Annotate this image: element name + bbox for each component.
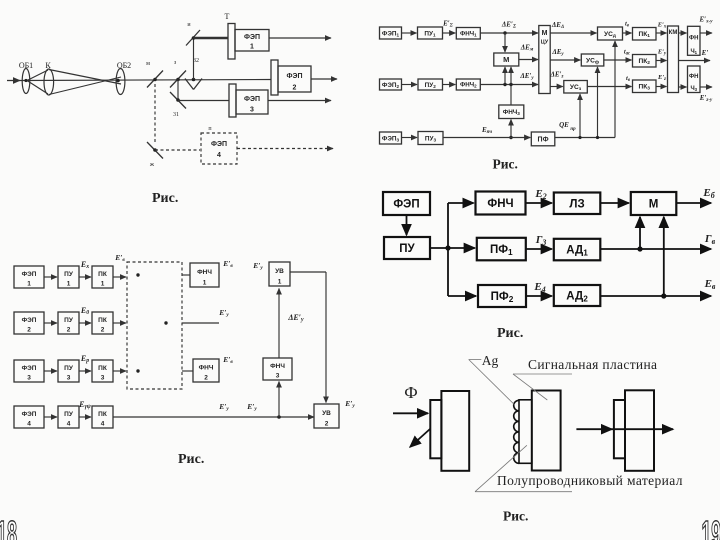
svg-text:Ч1: Ч1 xyxy=(690,49,697,55)
svg-text:ПК: ПК xyxy=(98,317,107,324)
svg-text:ж: ж xyxy=(149,162,155,168)
svg-text:3: 3 xyxy=(67,375,71,382)
svg-text:ФЭП: ФЭП xyxy=(22,411,37,418)
svg-text:ΔЕм: ΔЕм xyxy=(520,44,534,53)
svg-text:АД1: АД1 xyxy=(566,245,588,258)
svg-text:ФЭП: ФЭП xyxy=(22,365,37,372)
svg-text:2: 2 xyxy=(27,327,31,334)
svg-text:УСф: УСф xyxy=(586,57,599,65)
svg-text:Г3: Г3 xyxy=(535,234,547,247)
svg-text:Е′у: Е′у xyxy=(246,402,257,412)
svg-text:ПК: ПК xyxy=(98,271,107,278)
svg-text:1: 1 xyxy=(203,280,207,287)
svg-text:ПУ2: ПУ2 xyxy=(425,82,437,89)
svg-text:ФНЧ1: ФНЧ1 xyxy=(460,30,477,37)
svg-text:Сигнальная пластина: Сигнальная пластина xyxy=(528,357,657,372)
svg-text:2: 2 xyxy=(325,421,329,428)
svg-text:4: 4 xyxy=(101,421,105,428)
svg-text:УСз: УСз xyxy=(570,84,582,92)
svg-text:Е′у: Е′у xyxy=(657,49,667,57)
svg-text:М: М xyxy=(649,199,659,211)
svg-text:tв: tв xyxy=(626,75,631,83)
svg-text:Рис.: Рис. xyxy=(503,509,528,524)
svg-text:Рис.: Рис. xyxy=(178,452,204,467)
svg-text:Е′в: Е′в xyxy=(222,259,233,269)
svg-text:1: 1 xyxy=(67,281,71,288)
svg-text:Гв: Гв xyxy=(704,233,716,246)
svg-text:3: 3 xyxy=(276,373,280,380)
svg-text:ФЭП3: ФЭП3 xyxy=(382,135,400,142)
svg-text:Епч: Епч xyxy=(481,126,492,135)
svg-text:Полупроводниковый материал: Полупроводниковый материал xyxy=(497,473,683,488)
svg-text:ФН: ФН xyxy=(689,74,698,80)
svg-text:Ag: Ag xyxy=(482,353,499,368)
svg-text:ФНЧ: ФНЧ xyxy=(199,364,214,371)
svg-text:1: 1 xyxy=(250,44,254,51)
svg-text:Е′х: Е′х xyxy=(657,22,667,30)
svg-text:Е′: Е′ xyxy=(701,49,709,57)
svg-text:3: 3 xyxy=(250,107,254,114)
svg-text:Е′х-у: Е′х-у xyxy=(698,16,713,25)
svg-text:ПФ1: ПФ1 xyxy=(490,244,513,257)
svg-text:ПК1: ПК1 xyxy=(639,31,651,39)
svg-text:ΔЕу: ΔЕу xyxy=(551,48,564,57)
svg-text:ФЭП2: ФЭП2 xyxy=(382,82,400,89)
svg-text:3: 3 xyxy=(27,375,31,382)
svg-text:Е′в: Е′в xyxy=(222,355,233,365)
svg-text:ПК3: ПК3 xyxy=(639,84,651,92)
svg-text:ΔЕΔ: ΔЕΔ xyxy=(551,21,564,30)
svg-text:ПК2: ПК2 xyxy=(639,58,651,66)
svg-text:Е′z-у: Е′z-у xyxy=(699,94,713,103)
svg-text:ΔЕ′у: ΔЕ′у xyxy=(287,313,304,323)
svg-text:ПУ: ПУ xyxy=(399,243,415,255)
svg-text:ЛЗ: ЛЗ xyxy=(569,198,584,210)
svg-text:Ев: Ев xyxy=(704,278,716,291)
svg-text:м: м xyxy=(146,61,150,67)
svg-text:К: К xyxy=(45,61,51,70)
svg-text:ФНЧ3: ФНЧ3 xyxy=(503,109,521,116)
svg-text:Е4: Е4 xyxy=(533,281,545,294)
svg-text:Е′у: Е′у xyxy=(344,399,355,409)
svg-text:Е′у: Е′у xyxy=(218,402,229,412)
svg-text:tас: tас xyxy=(624,49,631,57)
svg-text:Рис.: Рис. xyxy=(497,326,523,341)
svg-text:4: 4 xyxy=(67,421,71,428)
svg-text:ПУ: ПУ xyxy=(64,271,74,278)
svg-text:2: 2 xyxy=(101,327,105,334)
svg-text:Е2: Е2 xyxy=(534,188,546,201)
svg-text:Е′в: Е′в xyxy=(114,253,125,263)
svg-text:ПК: ПК xyxy=(98,365,107,372)
svg-text:Еγψ: Еγψ xyxy=(78,400,91,410)
svg-text:Т: Т xyxy=(225,12,230,21)
svg-text:ПК: ПК xyxy=(98,411,107,418)
svg-text:КМ: КМ xyxy=(669,30,678,36)
svg-text:2: 2 xyxy=(67,327,71,334)
svg-text:М: М xyxy=(503,55,509,64)
svg-text:и: и xyxy=(187,22,191,28)
svg-text:Ех: Ех xyxy=(80,260,89,270)
svg-text:tв: tв xyxy=(625,21,630,29)
svg-text:ФНЧ2: ФНЧ2 xyxy=(460,82,477,89)
svg-text:19: 19 xyxy=(702,514,720,540)
svg-text:Рис.: Рис. xyxy=(493,157,518,172)
svg-text:ФН: ФН xyxy=(689,36,698,42)
svg-text:1: 1 xyxy=(278,279,282,286)
svg-text:Ч3: Ч3 xyxy=(690,86,697,92)
svg-text:Ф: Ф xyxy=(404,383,417,402)
svg-text:3: 3 xyxy=(101,375,105,382)
svg-text:ПФ2: ПФ2 xyxy=(491,291,514,304)
svg-text:ФЭП: ФЭП xyxy=(22,317,37,324)
svg-text:ΔЕ′Σ: ΔЕ′Σ xyxy=(501,21,517,30)
svg-text:1: 1 xyxy=(101,281,105,288)
svg-text:2: 2 xyxy=(293,85,297,92)
svg-text:ФЭП: ФЭП xyxy=(393,199,419,211)
svg-text:Ер: Ер xyxy=(80,354,89,364)
svg-text:ОБ2: ОБ2 xyxy=(117,61,131,70)
svg-text:ФЭП: ФЭП xyxy=(287,73,303,80)
svg-text:ФНЧ: ФНЧ xyxy=(270,363,285,370)
svg-text:ФЭП: ФЭП xyxy=(244,96,260,103)
svg-text:2: 2 xyxy=(204,375,208,382)
svg-text:ПУ: ПУ xyxy=(64,317,74,324)
svg-text:ЦУ: ЦУ xyxy=(541,40,549,46)
svg-text:ПУ: ПУ xyxy=(64,411,74,418)
svg-text:п: п xyxy=(208,126,212,132)
svg-text:з: з xyxy=(174,60,177,66)
svg-text:УВ: УВ xyxy=(322,410,331,417)
svg-text:УВ: УВ xyxy=(275,268,284,275)
svg-text:ΔЕ′z: ΔЕ′z xyxy=(550,71,564,80)
svg-text:4: 4 xyxy=(217,152,221,159)
svg-text:ФЭП: ФЭП xyxy=(22,271,37,278)
svg-text:пр: пр xyxy=(570,127,576,132)
svg-text:ФНЧ: ФНЧ xyxy=(197,269,212,276)
svg-text:1: 1 xyxy=(27,281,31,288)
svg-text:Рис.: Рис. xyxy=(152,191,178,206)
svg-text:18: 18 xyxy=(0,514,17,540)
svg-text:Е′Σ: Е′Σ xyxy=(442,20,454,29)
svg-text:ПУ3: ПУ3 xyxy=(425,135,437,142)
svg-text:ПФ: ПФ xyxy=(538,136,549,143)
svg-text:ФНЧ: ФНЧ xyxy=(487,198,513,210)
svg-text:ФЭП: ФЭП xyxy=(244,34,260,41)
svg-text:Е′у: Е′у xyxy=(252,261,263,271)
svg-text:QЕ: QЕ xyxy=(559,121,569,129)
svg-text:АД2: АД2 xyxy=(566,291,588,304)
svg-text:Е0: Е0 xyxy=(80,306,89,316)
svg-text:4: 4 xyxy=(27,421,31,428)
svg-text:ФЭП1: ФЭП1 xyxy=(382,30,400,37)
svg-text:ОБ1: ОБ1 xyxy=(19,61,33,70)
svg-text:ФЭП: ФЭП xyxy=(211,141,227,148)
svg-text:ΔЕ′у: ΔЕ′у xyxy=(519,72,534,81)
svg-text:ПУ1: ПУ1 xyxy=(424,30,436,37)
svg-text:УСд: УСд xyxy=(604,31,616,39)
svg-text:31: 31 xyxy=(173,112,179,118)
svg-text:Е′у: Е′у xyxy=(218,308,229,318)
svg-text:Еб: Еб xyxy=(702,187,715,200)
svg-text:ПУ: ПУ xyxy=(64,365,74,372)
svg-text:М: М xyxy=(542,30,548,37)
svg-text:Е′z: Е′z xyxy=(657,74,666,82)
